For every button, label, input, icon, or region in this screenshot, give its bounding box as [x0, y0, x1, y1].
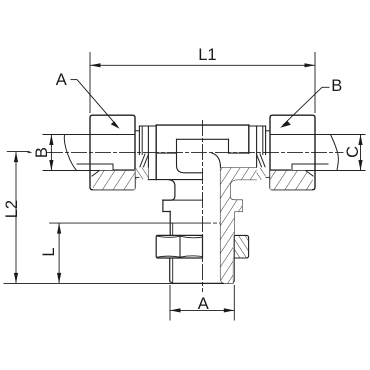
left washer stack	[139, 125, 156, 127]
svg-text:C: C	[344, 146, 362, 158]
right nut outline	[270, 115, 315, 152]
stem wall right	[233, 211, 235, 235]
hatch top boundary	[221, 167, 257, 169]
svg-text:L2: L2	[3, 200, 21, 218]
thread engagement smudge left	[114, 169, 135, 173]
bottom extension line	[4, 282, 170, 284]
centerline vertical	[202, 121, 204, 292]
collar bottom left	[163, 211, 170, 213]
thread minor line left	[172, 223, 174, 235]
stem wall left	[169, 211, 171, 235]
svg-text:L: L	[40, 247, 58, 256]
left nut outline	[90, 115, 135, 152]
hex facet line	[179, 235, 181, 258]
hex nut left external	[156, 235, 202, 258]
leader A	[71, 79, 78, 81]
cone seat left	[144, 154, 149, 167]
right nut lower hatch	[270, 171, 313, 190]
flange bottom right	[230, 179, 257, 181]
left nut sleeve step	[135, 130, 139, 132]
stem below nut left	[169, 258, 171, 281]
collar right side	[241, 200, 243, 211]
dimensions	[4, 52, 363, 321]
left tube break curve	[64, 135, 76, 171]
body cavity top	[177, 138, 229, 140]
cavity right wall	[228, 139, 230, 153]
dim L	[58, 223, 60, 283]
dim A bottom	[169, 285, 171, 321]
centerline horizontal	[28, 152, 31, 154]
stem below nut right	[233, 258, 235, 281]
flange bottom left	[148, 179, 202, 181]
ferrule left	[104, 171, 127, 177]
collar left side	[162, 200, 164, 211]
locknut section right	[234, 235, 248, 258]
dim C	[360, 135, 362, 171]
dim L1	[89, 52, 91, 113]
thread start line	[50, 222, 203, 224]
left port section guts	[77, 163, 113, 165]
ferrule right	[278, 171, 301, 177]
flange fillet to neck left	[163, 180, 175, 201]
thread engagement smudge right	[271, 169, 292, 173]
bore wall right	[221, 168, 227, 284]
leader B	[322, 86, 330, 88]
bottom face	[170, 282, 233, 284]
right tube break curve	[331, 135, 339, 171]
collar top left	[163, 199, 203, 201]
svg-text:A: A	[198, 295, 209, 313]
hex chamfer arcs	[158, 236, 180, 237]
right washer stack	[249, 125, 266, 127]
right nut sleeve step	[266, 130, 270, 132]
svg-text:A: A	[56, 71, 67, 89]
dim L2	[7, 151, 30, 153]
cone seat right	[256, 154, 261, 167]
svg-text:B: B	[33, 147, 51, 158]
dim B	[42, 134, 44, 136]
bore bottom edges	[156, 152, 176, 154]
right port section guts	[292, 163, 328, 165]
svg-text:B: B	[331, 77, 342, 95]
right cavity to bore curve	[212, 153, 221, 168]
left tube	[43, 134, 135, 136]
neck right	[230, 180, 242, 201]
right half section hatch	[221, 168, 257, 284]
washer section hatch right	[257, 168, 266, 180]
body outline	[156, 124, 249, 126]
collar bottom right	[234, 211, 242, 213]
right tube	[270, 134, 365, 136]
left nut lower hatch	[92, 171, 135, 190]
svg-text:L1: L1	[198, 46, 216, 64]
cavity left wall and fillet	[177, 139, 203, 173]
